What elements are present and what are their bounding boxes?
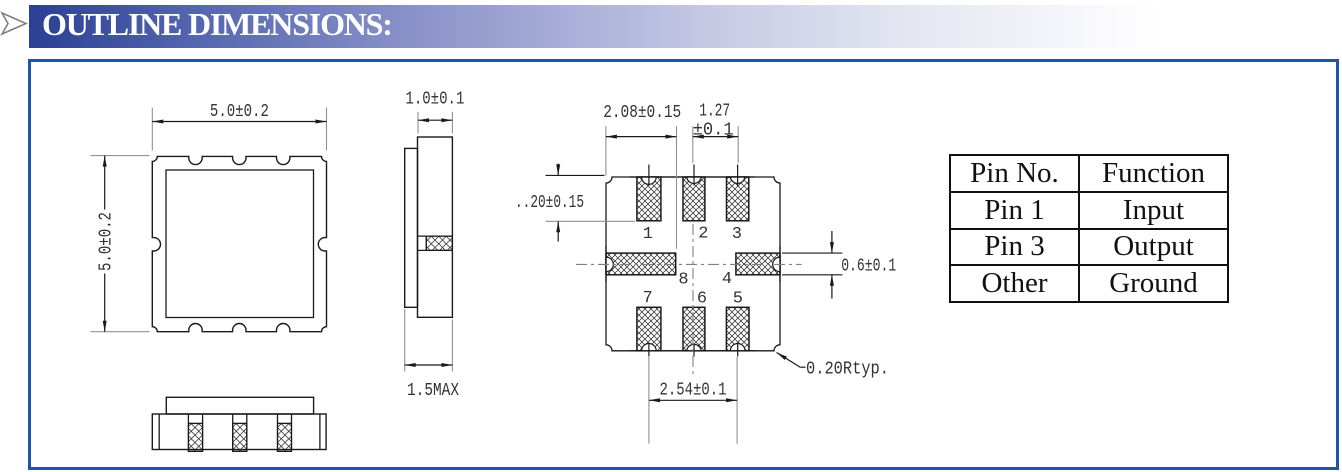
svg-text:±0.1: ±0.1 (693, 120, 734, 140)
svg-text:2.54±0.1: 2.54±0.1 (660, 380, 727, 400)
svg-text:1.0±0.1: 1.0±0.1 (405, 90, 464, 110)
svg-text:4: 4 (722, 270, 732, 289)
svg-text:7: 7 (643, 289, 653, 308)
svg-text:1: 1 (643, 225, 653, 244)
svg-text:8: 8 (678, 271, 688, 290)
svg-text:1.27: 1.27 (699, 102, 730, 122)
svg-text:5.0±0.2: 5.0±0.2 (210, 102, 269, 122)
svg-text:1.5MAX: 1.5MAX (407, 381, 459, 401)
svg-text:3: 3 (732, 225, 742, 244)
svg-text:5.0±0.2: 5.0±0.2 (97, 212, 117, 271)
svg-text:..20±0.15: ..20±0.15 (515, 193, 584, 213)
svg-text:2: 2 (698, 224, 708, 243)
svg-text:5: 5 (733, 290, 743, 309)
svg-text:0.20Rtyp.: 0.20Rtyp. (806, 360, 889, 380)
svg-text:6: 6 (697, 290, 707, 309)
svg-text:0.6±0.1: 0.6±0.1 (841, 257, 896, 277)
svg-text:2.08±0.15: 2.08±0.15 (603, 103, 681, 123)
